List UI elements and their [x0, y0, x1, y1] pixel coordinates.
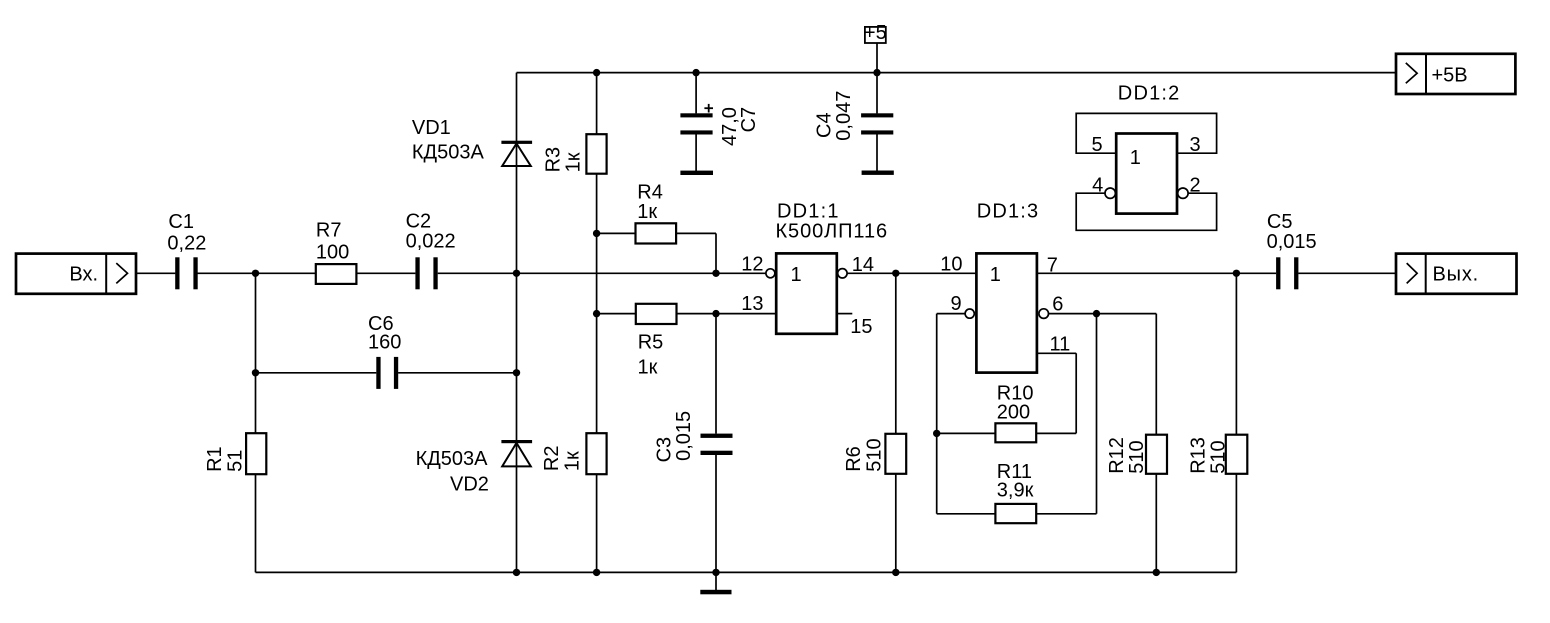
svg-text:1: 1 — [990, 264, 1001, 286]
diode VD2 — [416, 440, 533, 495]
svg-text:VD2: VD2 — [450, 473, 489, 495]
wire pin 15 stub — [837, 313, 853, 315]
wire main line: input connector to C1 — [128, 272, 176, 274]
junction R10/R11 left — [933, 430, 940, 437]
junction bottom rail VD2 — [513, 569, 520, 576]
diode VD1 — [412, 117, 532, 166]
svg-text:VD1: VD1 — [412, 117, 451, 139]
svg-text:КД503А: КД503А — [412, 142, 485, 164]
resistor R11 — [995, 461, 1036, 523]
wire main line: R7 to C2 — [356, 272, 415, 274]
wire +5 symbol to rail and C4 top — [876, 43, 878, 113]
svg-text:R5: R5 — [638, 331, 664, 353]
pin 4 inversion circle — [1105, 188, 1115, 198]
wire R10 row right — [1036, 432, 1076, 434]
wire output line: DD1:3 pin 7 to C5 — [1037, 272, 1276, 274]
wire pin 11 column to R10 — [1075, 353, 1077, 433]
resistor R13 — [1188, 435, 1248, 474]
junction bottom rail ground — [712, 569, 719, 576]
wire +5V top rail — [517, 72, 1418, 74]
junction C6 right — [513, 369, 520, 376]
svg-text:R7: R7 — [316, 219, 342, 241]
pin 14 inversion circle — [838, 269, 847, 278]
junction pin6/R11 — [1093, 310, 1100, 317]
svg-text:КД503А: КД503А — [416, 448, 489, 470]
svg-text:4: 4 — [1092, 174, 1103, 196]
resistor R6 — [843, 434, 906, 474]
wire R4 drop to node 12 — [715, 233, 717, 273]
wire C3 column top — [715, 314, 717, 434]
svg-text:1к: 1к — [637, 201, 657, 223]
svg-text:К500ЛП116: К500ЛП116 — [776, 221, 889, 243]
wire C7 column top — [695, 73, 697, 114]
svg-text:2: 2 — [1190, 174, 1201, 196]
svg-text:C5: C5 — [1267, 211, 1293, 233]
junction node output R13 — [1233, 270, 1240, 277]
svg-text:+5: +5 — [864, 22, 887, 44]
svg-text:C3: C3 — [653, 437, 675, 463]
svg-text:C4: C4 — [813, 112, 835, 138]
junction C6 left — [252, 369, 259, 376]
wire R13 column top — [1235, 273, 1237, 434]
svg-text:10: 10 — [940, 253, 962, 275]
svg-text:0,22: 0,22 — [167, 233, 206, 255]
wire input column below R1 — [255, 474, 257, 572]
svg-text:1к: 1к — [563, 152, 585, 172]
svg-text:DD1:2: DD1:2 — [1118, 83, 1181, 105]
junction node 14 R6 — [892, 270, 899, 277]
wire R11 column to pin 6 node — [1096, 314, 1098, 514]
svg-text:100: 100 — [316, 241, 349, 263]
resistor R4 — [636, 181, 677, 243]
power symbol +5 — [864, 22, 887, 44]
wire R6 column bottom — [895, 474, 897, 573]
resistor R7 — [316, 219, 357, 284]
junction top rail C7 — [692, 69, 699, 76]
ground bar under C7 — [680, 171, 713, 175]
resistor R3 — [543, 134, 607, 174]
wire R2 column bottom — [596, 474, 598, 572]
resistor R10 — [995, 383, 1036, 443]
resistor R2 — [541, 433, 606, 474]
svg-text:Вых.: Вых. — [1433, 263, 1479, 285]
wire R4 row right — [676, 232, 716, 234]
connector X1 input Вх. — [16, 254, 136, 294]
capacitor C2 — [406, 211, 456, 290]
wire pin 9 lead — [937, 313, 965, 315]
junction R5 left — [593, 310, 600, 317]
junction node 13 C3 — [712, 310, 719, 317]
junction top rail R3 — [593, 69, 600, 76]
svg-text:R12: R12 — [1106, 437, 1128, 474]
svg-text:14: 14 — [852, 254, 874, 276]
capacitor C1 — [167, 211, 206, 289]
svg-text:5: 5 — [1091, 134, 1102, 156]
resistor R1 — [204, 433, 266, 474]
svg-text:R13: R13 — [1188, 437, 1210, 474]
svg-text:R2: R2 — [541, 446, 563, 472]
junction R4 left — [593, 230, 600, 237]
wire main line: DD1:1 pin 14 to DD1:3 pin 10 — [847, 272, 976, 274]
svg-text:R4: R4 — [637, 181, 663, 203]
wire C4 column bottom — [876, 134, 878, 171]
gate DD1:3 — [976, 200, 1039, 372]
capacitor C7 electrolytic — [680, 104, 760, 146]
svg-text:13: 13 — [741, 293, 763, 315]
junction bottom rail R2 — [593, 569, 600, 576]
wire R13 column bottom — [1235, 474, 1237, 573]
wire diode column VD1/VD2 — [516, 73, 518, 573]
wire main line: C1 to R7 — [198, 272, 316, 274]
junction bottom rail R6 — [892, 569, 899, 576]
junction node C2/diodes — [513, 270, 520, 277]
gate DD1:2 unused — [1076, 83, 1216, 231]
junction node input/R1 — [252, 270, 259, 277]
svg-text:510: 510 — [864, 438, 886, 471]
capacitor C4 — [813, 91, 893, 141]
svg-text:C2: C2 — [406, 211, 432, 233]
junction node 12 R4 — [712, 270, 719, 277]
wire C6 row right — [398, 372, 516, 374]
wire pin 9 feedback column — [936, 314, 938, 514]
svg-text:1: 1 — [791, 264, 802, 286]
svg-text:Вх.: Вх. — [69, 263, 98, 285]
wire R12 column top — [1155, 314, 1157, 435]
wire DD1:2 bottom loop pin4 to pin2 — [1076, 193, 1216, 230]
resistor R5 — [636, 304, 677, 379]
wire R3 column top — [596, 73, 598, 135]
svg-text:12: 12 — [741, 253, 763, 275]
junction bottom rail R12 — [1153, 569, 1160, 576]
wire ground stub below rail — [715, 572, 717, 590]
wire input column above R1 — [255, 273, 257, 433]
svg-text:C1: C1 — [168, 211, 194, 233]
svg-text:160: 160 — [368, 331, 401, 353]
svg-text:+5В: +5В — [1432, 65, 1468, 87]
svg-text:15: 15 — [850, 316, 872, 338]
svg-text:1к: 1к — [562, 451, 584, 471]
svg-text:510: 510 — [1207, 440, 1229, 473]
svg-text:DD1:1: DD1:1 — [777, 200, 840, 222]
svg-text:1: 1 — [1130, 147, 1141, 169]
svg-text:0,022: 0,022 — [406, 231, 456, 253]
svg-text:C7: C7 — [738, 107, 760, 133]
wire ground bottom rail — [256, 571, 1237, 573]
svg-text:6: 6 — [1052, 294, 1063, 316]
op-amp gate DD1:1 К500ЛП116 — [776, 200, 889, 333]
resistor R12 — [1106, 435, 1167, 474]
svg-text:11: 11 — [1050, 333, 1071, 355]
pin 2 inversion circle — [1178, 188, 1188, 198]
ground symbol main — [700, 590, 731, 595]
wire C6 row left — [256, 372, 377, 374]
wire R6 column top — [895, 273, 897, 434]
pin 9 inversion circle — [965, 309, 974, 318]
wire C3 column bottom — [715, 455, 717, 573]
svg-text:DD1:3: DD1:3 — [977, 200, 1040, 222]
junction top rail C4 — [873, 69, 880, 76]
wire R4 row left — [597, 232, 636, 234]
wire R5 row right to pin 13 — [677, 313, 777, 315]
wire DD1:2 top loop pin5 to pin3 — [1076, 113, 1216, 153]
capacitor C5 — [1267, 211, 1317, 289]
svg-text:9: 9 — [950, 293, 961, 315]
wire R11 row left — [937, 513, 996, 515]
connector X2 output Вых. — [1396, 254, 1517, 294]
svg-text:1к: 1к — [638, 357, 658, 379]
capacitor C3 — [653, 411, 732, 463]
wire R11 row right — [1036, 513, 1096, 515]
wire R10 row left — [937, 432, 996, 434]
pin 6 inversion circle — [1039, 309, 1049, 319]
svg-text:3: 3 — [1190, 134, 1201, 156]
svg-text:200: 200 — [997, 402, 1030, 424]
wire pin 11 stub — [1037, 352, 1076, 354]
svg-text:R3: R3 — [543, 147, 565, 173]
svg-text:0,015: 0,015 — [673, 411, 695, 461]
svg-text:0,015: 0,015 — [1267, 231, 1317, 253]
wire output line: C5 to output connector — [1298, 272, 1417, 274]
svg-text:R6: R6 — [843, 446, 865, 472]
svg-text:51: 51 — [224, 450, 246, 472]
wire C7 column bottom — [695, 134, 697, 171]
svg-text:510: 510 — [1126, 440, 1148, 473]
ground bar under C4 — [862, 171, 894, 175]
svg-text:R1: R1 — [204, 446, 226, 472]
wire R12 column bottom — [1155, 474, 1157, 573]
connector +5V output +5В — [1396, 54, 1515, 94]
pin 12 inversion circle — [766, 269, 775, 278]
capacitor C6 — [368, 313, 401, 389]
wire R5 row left — [597, 313, 636, 315]
wire main line: C2 to DD1:1 pin 12 — [438, 272, 766, 274]
svg-text:3,9к: 3,9к — [997, 479, 1034, 501]
svg-text:0,047: 0,047 — [833, 91, 855, 141]
wire R3-R2 column middle — [596, 174, 598, 434]
svg-text:7: 7 — [1047, 255, 1058, 277]
wire pin 6 row — [1049, 313, 1157, 315]
